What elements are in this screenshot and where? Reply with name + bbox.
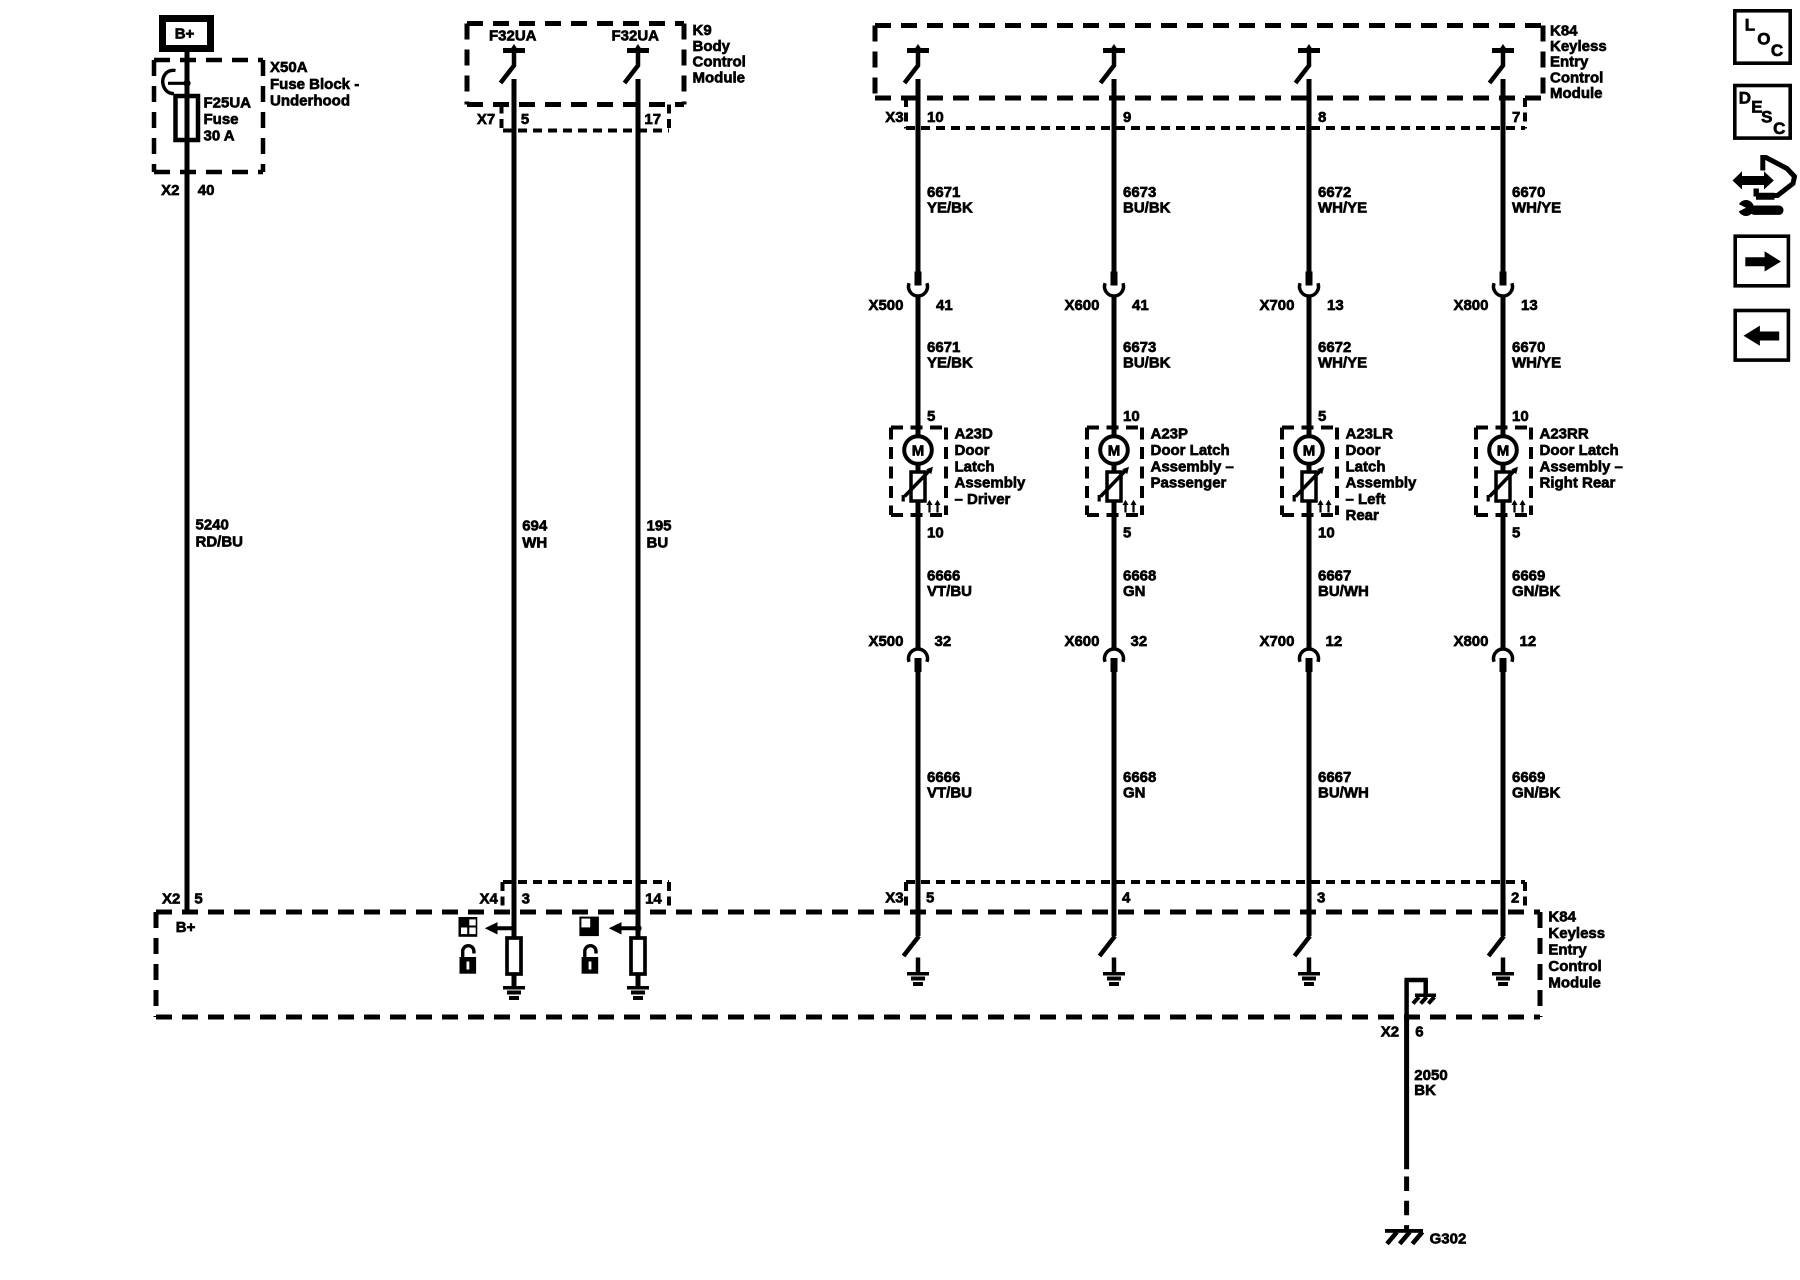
svg-text:X2: X2 — [161, 182, 179, 199]
svg-text:14: 14 — [645, 890, 662, 907]
svg-text:F32UA: F32UA — [612, 28, 660, 45]
svg-text:C: C — [1771, 41, 1783, 60]
svg-text:Module: Module — [1548, 975, 1601, 992]
svg-text:GN/BK: GN/BK — [1512, 583, 1561, 600]
svg-text:6671: 6671 — [927, 339, 960, 356]
svg-text:Entry: Entry — [1548, 942, 1587, 959]
svg-text:694: 694 — [522, 517, 548, 534]
svg-text:41: 41 — [936, 297, 953, 314]
svg-text:B+: B+ — [175, 26, 195, 43]
svg-text:6667: 6667 — [1318, 568, 1351, 585]
svg-text:RD/BU: RD/BU — [196, 534, 244, 551]
svg-text:Fuse Block -: Fuse Block - — [270, 76, 359, 93]
svg-text:4: 4 — [1122, 890, 1131, 907]
svg-text:X4: X4 — [479, 890, 498, 907]
svg-text:– Driver: – Driver — [955, 491, 1011, 508]
svg-text:X800: X800 — [1453, 633, 1488, 650]
svg-text:WH/YE: WH/YE — [1318, 199, 1367, 216]
svg-text:41: 41 — [1132, 297, 1149, 314]
svg-text:13: 13 — [1327, 297, 1344, 314]
svg-text:5: 5 — [927, 408, 935, 425]
svg-text:WH: WH — [522, 535, 547, 552]
svg-text:C: C — [1773, 119, 1785, 138]
svg-text:6: 6 — [1415, 1023, 1423, 1040]
svg-text:Door Latch: Door Latch — [1151, 442, 1230, 459]
svg-text:30 A: 30 A — [204, 128, 235, 145]
svg-text:VT/BU: VT/BU — [927, 785, 972, 802]
svg-text:K84: K84 — [1548, 909, 1576, 926]
svg-text:Passenger: Passenger — [1151, 475, 1227, 492]
svg-text:M: M — [1108, 443, 1121, 460]
svg-text:9: 9 — [1123, 109, 1131, 126]
svg-text:BU/BK: BU/BK — [1123, 199, 1171, 216]
svg-text:WH/YE: WH/YE — [1512, 355, 1561, 372]
svg-text:Assembly –: Assembly – — [1151, 458, 1234, 475]
svg-text:S: S — [1761, 107, 1772, 126]
svg-text:6666: 6666 — [927, 568, 960, 585]
svg-text:6673: 6673 — [1123, 339, 1156, 356]
svg-text:– Left: – Left — [1346, 491, 1386, 508]
svg-text:6669: 6669 — [1512, 568, 1545, 585]
svg-text:5: 5 — [194, 890, 202, 907]
svg-text:2: 2 — [1511, 890, 1519, 907]
svg-text:6667: 6667 — [1318, 769, 1351, 786]
svg-text:L: L — [1745, 16, 1755, 35]
svg-text:Control: Control — [1548, 958, 1601, 975]
svg-text:X800: X800 — [1453, 297, 1488, 314]
svg-text:BU/WH: BU/WH — [1318, 785, 1369, 802]
svg-text:6672: 6672 — [1318, 339, 1351, 356]
svg-text:40: 40 — [198, 182, 215, 199]
svg-text:6670: 6670 — [1512, 184, 1545, 201]
svg-text:BK: BK — [1414, 1082, 1436, 1099]
svg-text:12: 12 — [1326, 633, 1343, 650]
svg-text:X600: X600 — [1064, 297, 1099, 314]
svg-text:Module: Module — [1550, 85, 1603, 102]
svg-text:D: D — [1739, 88, 1751, 107]
svg-text:X7: X7 — [477, 111, 495, 128]
svg-text:WH/YE: WH/YE — [1318, 355, 1367, 372]
svg-text:VT/BU: VT/BU — [927, 583, 972, 600]
svg-text:Control: Control — [1550, 69, 1603, 86]
svg-text:M: M — [1497, 443, 1510, 460]
svg-text:Assembly: Assembly — [955, 475, 1027, 492]
svg-text:WH/YE: WH/YE — [1512, 199, 1561, 216]
svg-text:BU/WH: BU/WH — [1318, 583, 1369, 600]
svg-text:10: 10 — [1512, 408, 1529, 425]
svg-text:A23LR: A23LR — [1346, 426, 1394, 443]
svg-text:12: 12 — [1520, 633, 1537, 650]
svg-text:13: 13 — [1521, 297, 1538, 314]
svg-text:X600: X600 — [1064, 633, 1099, 650]
svg-text:Body: Body — [693, 38, 731, 55]
svg-text:Assembly –: Assembly – — [1540, 458, 1623, 475]
svg-text:Door: Door — [955, 442, 990, 459]
svg-text:F32UA: F32UA — [489, 28, 537, 45]
svg-text:Door Latch: Door Latch — [1540, 442, 1619, 459]
svg-text:Right Rear: Right Rear — [1540, 475, 1616, 492]
svg-text:X700: X700 — [1259, 297, 1294, 314]
svg-text:X500: X500 — [868, 297, 903, 314]
svg-text:BU: BU — [647, 535, 669, 552]
svg-text:17: 17 — [644, 111, 661, 128]
svg-text:YE/BK: YE/BK — [927, 355, 973, 372]
svg-text:5240: 5240 — [196, 516, 229, 533]
svg-text:X2: X2 — [162, 890, 180, 907]
svg-text:3: 3 — [522, 890, 530, 907]
svg-text:K9: K9 — [693, 22, 712, 39]
svg-text:F25UA: F25UA — [204, 95, 252, 112]
svg-text:5: 5 — [926, 890, 934, 907]
svg-text:6672: 6672 — [1318, 184, 1351, 201]
svg-text:5: 5 — [1318, 408, 1326, 425]
svg-text:GN/BK: GN/BK — [1512, 785, 1561, 802]
svg-text:X3: X3 — [885, 109, 903, 126]
svg-text:Rear: Rear — [1346, 507, 1380, 524]
svg-text:K84: K84 — [1550, 23, 1578, 40]
svg-text:8: 8 — [1318, 109, 1326, 126]
svg-text:3: 3 — [1317, 890, 1325, 907]
svg-text:6668: 6668 — [1123, 769, 1156, 786]
svg-text:32: 32 — [935, 633, 952, 650]
svg-text:6669: 6669 — [1512, 769, 1545, 786]
svg-text:5: 5 — [521, 111, 529, 128]
svg-text:B+: B+ — [176, 919, 196, 936]
svg-text:A23P: A23P — [1151, 426, 1189, 443]
svg-text:Door: Door — [1346, 442, 1381, 459]
svg-text:5: 5 — [1123, 524, 1131, 541]
svg-text:5: 5 — [1512, 524, 1520, 541]
svg-text:X500: X500 — [868, 633, 903, 650]
svg-text:A23D: A23D — [955, 426, 994, 443]
svg-text:7: 7 — [1512, 109, 1520, 126]
svg-text:10: 10 — [1318, 524, 1335, 541]
svg-text:O: O — [1757, 29, 1770, 48]
svg-text:A23RR: A23RR — [1540, 426, 1589, 443]
svg-text:10: 10 — [927, 109, 944, 126]
svg-text:Entry: Entry — [1550, 54, 1589, 71]
svg-text:Underhood: Underhood — [270, 93, 350, 110]
svg-text:Keyless: Keyless — [1550, 38, 1607, 55]
svg-text:M: M — [1303, 443, 1316, 460]
svg-text:Control: Control — [693, 54, 746, 71]
svg-text:X2: X2 — [1381, 1023, 1399, 1040]
svg-text:Assembly: Assembly — [1346, 475, 1418, 492]
svg-text:10: 10 — [1123, 408, 1140, 425]
svg-text:GN: GN — [1123, 583, 1146, 600]
svg-text:6673: 6673 — [1123, 184, 1156, 201]
svg-text:Latch: Latch — [1346, 458, 1386, 475]
svg-text:6670: 6670 — [1512, 339, 1545, 356]
svg-text:6668: 6668 — [1123, 568, 1156, 585]
svg-text:X700: X700 — [1259, 633, 1294, 650]
svg-text:Keyless: Keyless — [1548, 925, 1605, 942]
svg-text:Latch: Latch — [955, 458, 995, 475]
svg-text:BU/BK: BU/BK — [1123, 355, 1171, 372]
svg-text:6666: 6666 — [927, 769, 960, 786]
svg-text:Module: Module — [693, 69, 746, 86]
svg-text:195: 195 — [647, 517, 672, 534]
svg-text:M: M — [912, 443, 925, 460]
svg-text:10: 10 — [927, 524, 944, 541]
svg-text:G302: G302 — [1430, 1231, 1467, 1248]
svg-text:X50A: X50A — [270, 59, 308, 76]
svg-text:Fuse: Fuse — [204, 111, 239, 128]
svg-text:X3: X3 — [885, 890, 903, 907]
svg-text:32: 32 — [1131, 633, 1148, 650]
svg-text:6671: 6671 — [927, 184, 960, 201]
svg-text:GN: GN — [1123, 785, 1146, 802]
svg-text:YE/BK: YE/BK — [927, 199, 973, 216]
